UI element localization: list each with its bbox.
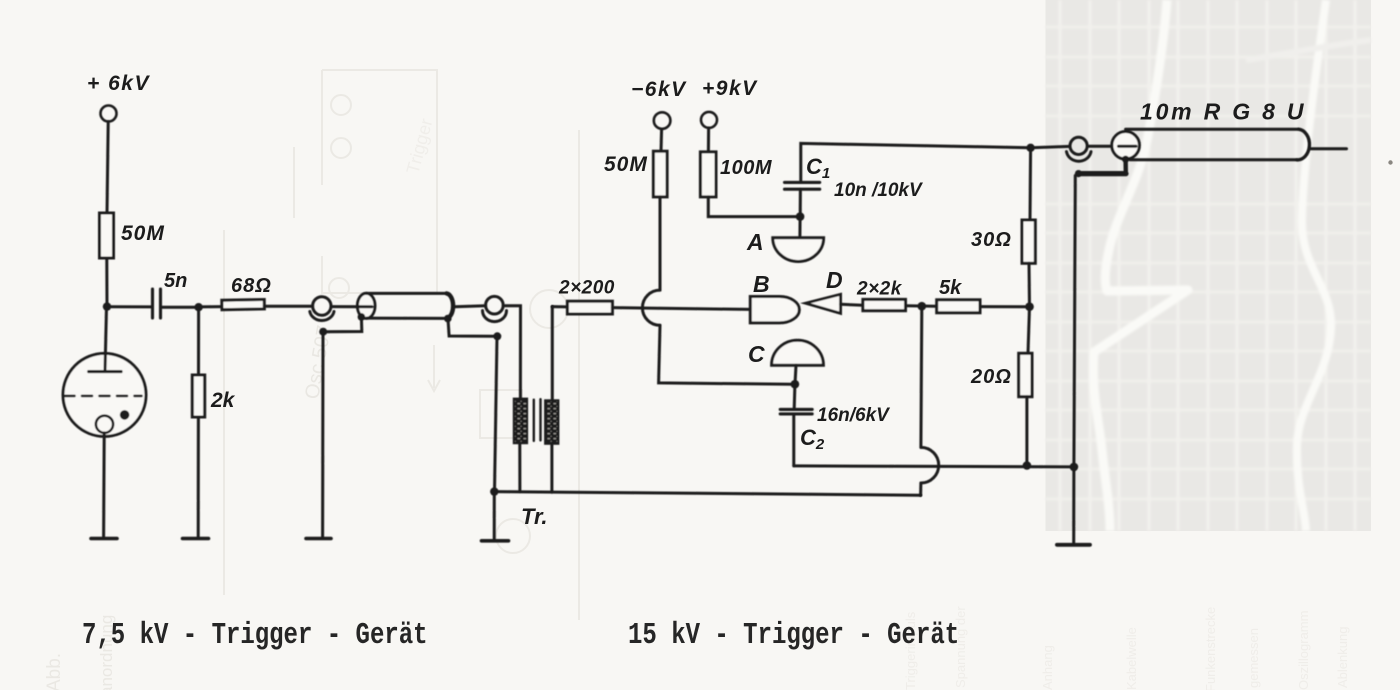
node junction — [1025, 302, 1034, 311]
svg-text:Oszillogramm: Oszillogramm — [1296, 611, 1311, 690]
wire — [660, 129, 664, 151]
capacitor C1 — [785, 182, 820, 189]
coax cable (short link) — [357, 293, 375, 318]
svg-text:Funkenstrecke: Funkenstrecke — [1203, 607, 1218, 690]
wire — [792, 414, 795, 466]
cathode circle — [96, 416, 113, 433]
resistor 2x200 — [567, 301, 612, 314]
svg-text:10n /10kV: 10n /10kV — [834, 180, 923, 201]
anode plate — [89, 370, 121, 373]
node shield right — [444, 315, 452, 323]
svg-text:Anhang: Anhang — [1040, 645, 1055, 690]
svg-text:10m R G 8 U: 10m R G 8 U — [1140, 99, 1306, 125]
svg-text:100M: 100M — [720, 157, 773, 179]
svg-text:2×2k: 2×2k — [856, 279, 903, 300]
wire — [659, 325, 794, 384]
cathode wire — [102, 433, 106, 538]
node junction — [1023, 461, 1032, 470]
thyratron tube V1 — [63, 353, 146, 436]
svg-text:50M: 50M — [604, 153, 648, 176]
wire shield strap — [1123, 159, 1128, 172]
wire — [493, 492, 496, 541]
resistor 2x2k — [863, 299, 906, 310]
wire secondary bottom — [550, 444, 553, 493]
coax 10m RG8U body — [1126, 128, 1299, 131]
node junction — [918, 302, 927, 311]
svg-text:C: C — [748, 341, 765, 367]
coax 10m RG8U start circle — [1112, 132, 1140, 160]
svg-text:30Ω: 30Ω — [971, 229, 1012, 251]
wire primary bottom — [518, 443, 521, 492]
transformer Tr. secondary winding — [545, 400, 558, 444]
svg-text:−6kV: −6kV — [631, 78, 687, 101]
svg-text:2k: 2k — [210, 389, 236, 412]
connector (right coax plug) — [486, 296, 504, 314]
wire — [197, 417, 200, 538]
wire — [455, 306, 486, 307]
wire node to C2 — [793, 384, 797, 409]
trigger electrode D — [806, 294, 841, 313]
node junction — [1070, 463, 1079, 472]
wire — [321, 332, 324, 538]
wire — [659, 197, 662, 290]
resistor 68ohm — [222, 300, 265, 310]
wire shield left — [323, 317, 362, 332]
svg-text:68Ω: 68Ω — [231, 275, 272, 297]
resistor 100M — [700, 152, 716, 197]
svg-text:7,5 kV - Trigger - Gerät: 7,5 kV - Trigger - Gerät — [82, 619, 428, 653]
connector (cable plug) — [1070, 137, 1087, 154]
wire from D node down — [919, 306, 923, 447]
wire shield right — [448, 319, 497, 337]
svg-text:50M: 50M — [121, 222, 165, 245]
node junction below C — [791, 380, 800, 389]
wire secondary top — [551, 307, 554, 401]
svg-text:Kabelwelle: Kabelwelle — [1124, 627, 1139, 690]
svg-text:Ablenkung: Ablenkung — [1335, 627, 1350, 688]
resistor 5k — [937, 300, 980, 313]
wire C2 bus — [794, 466, 1074, 467]
wire — [495, 336, 498, 491]
terminal +6kV — [101, 106, 117, 122]
resistor 50M (right) — [653, 151, 667, 197]
wire C1 top to coax — [801, 143, 1070, 182]
electrode A — [773, 238, 824, 262]
ground — [1057, 543, 1090, 547]
wire — [105, 258, 108, 307]
wire — [503, 306, 520, 400]
wire right ground column — [1074, 176, 1076, 545]
svg-text:Tr.: Tr. — [521, 504, 548, 529]
capacitor C2 — [780, 409, 812, 414]
ground — [482, 539, 509, 543]
electrode B — [750, 297, 799, 323]
wire — [107, 305, 152, 308]
anode wire — [105, 307, 107, 372]
svg-text:5k: 5k — [939, 277, 962, 299]
wire — [199, 305, 222, 308]
svg-text:16n/6kV: 16n/6kV — [817, 405, 890, 426]
resistor 50M (left) — [100, 213, 114, 258]
svg-text:gemessen: gemessen — [1246, 628, 1261, 688]
resistor 30ohm — [1022, 220, 1035, 263]
terminal +9kV — [701, 112, 717, 128]
svg-text:A: A — [746, 229, 764, 255]
wire — [1028, 307, 1030, 354]
ground — [183, 537, 209, 541]
node junction — [493, 332, 501, 340]
wire C1 bottom — [799, 189, 802, 216]
wire — [708, 197, 800, 217]
node junction — [194, 303, 202, 311]
svg-text:5n: 5n — [164, 270, 187, 292]
svg-text:B: B — [753, 271, 770, 297]
wire hop over C2 line — [921, 447, 939, 483]
node junction — [319, 328, 327, 336]
wire center conductor — [1087, 145, 1110, 148]
resistor 2k — [192, 375, 204, 417]
ground — [91, 537, 117, 541]
node junction — [103, 302, 111, 310]
resistor 20ohm — [1019, 353, 1032, 396]
terminal -6kV — [654, 112, 671, 129]
photo bleed-through block (oscillogram) — [1045, 0, 1371, 531]
ground — [306, 537, 331, 541]
wire — [1025, 397, 1028, 466]
wire secondary to 2x200 — [552, 305, 567, 308]
svg-text:Abb.: Abb. — [44, 653, 65, 690]
tube dot — [120, 410, 130, 420]
transformer core — [533, 400, 535, 441]
node junction — [1026, 144, 1034, 152]
wire — [980, 305, 1030, 308]
wire — [707, 128, 710, 152]
wire to electrode A — [798, 217, 801, 238]
wire hop over B line — [642, 290, 660, 325]
wire — [841, 303, 863, 307]
svg-text:D: D — [826, 267, 843, 293]
wire — [1028, 263, 1032, 306]
wire output — [1310, 147, 1347, 150]
grid (dashed) — [65, 395, 142, 398]
node shield left — [358, 313, 366, 321]
node junction — [796, 212, 805, 221]
svg-text:20Ω: 20Ω — [970, 366, 1012, 388]
svg-text:15 kV - Trigger - Gerät: 15 kV - Trigger - Gerät — [628, 619, 959, 653]
transformer Tr. primary winding — [514, 399, 527, 444]
node junction — [490, 487, 498, 495]
electrode C — [772, 340, 824, 365]
wire — [107, 122, 108, 214]
wire — [161, 306, 199, 309]
wire 2k branch — [197, 307, 200, 375]
wire — [906, 304, 937, 308]
wire ground bus — [494, 492, 920, 496]
wire — [919, 483, 922, 495]
wire to electrode B — [612, 308, 750, 310]
wire C to node — [795, 365, 796, 384]
capacitor 5n — [153, 289, 161, 318]
svg-text:2×200: 2×200 — [558, 278, 615, 299]
node shield — [1122, 156, 1129, 163]
svg-text:+ 6kV: + 6kV — [87, 72, 150, 95]
wire 30ohm column top — [1029, 148, 1033, 220]
ghost bleed-through shapes (reverse page) — [224, 70, 579, 620]
svg-text:+9kV: +9kV — [702, 77, 758, 100]
connector (left coax plug) — [313, 297, 331, 315]
wire center conductor — [331, 305, 372, 308]
wire — [264, 305, 312, 308]
